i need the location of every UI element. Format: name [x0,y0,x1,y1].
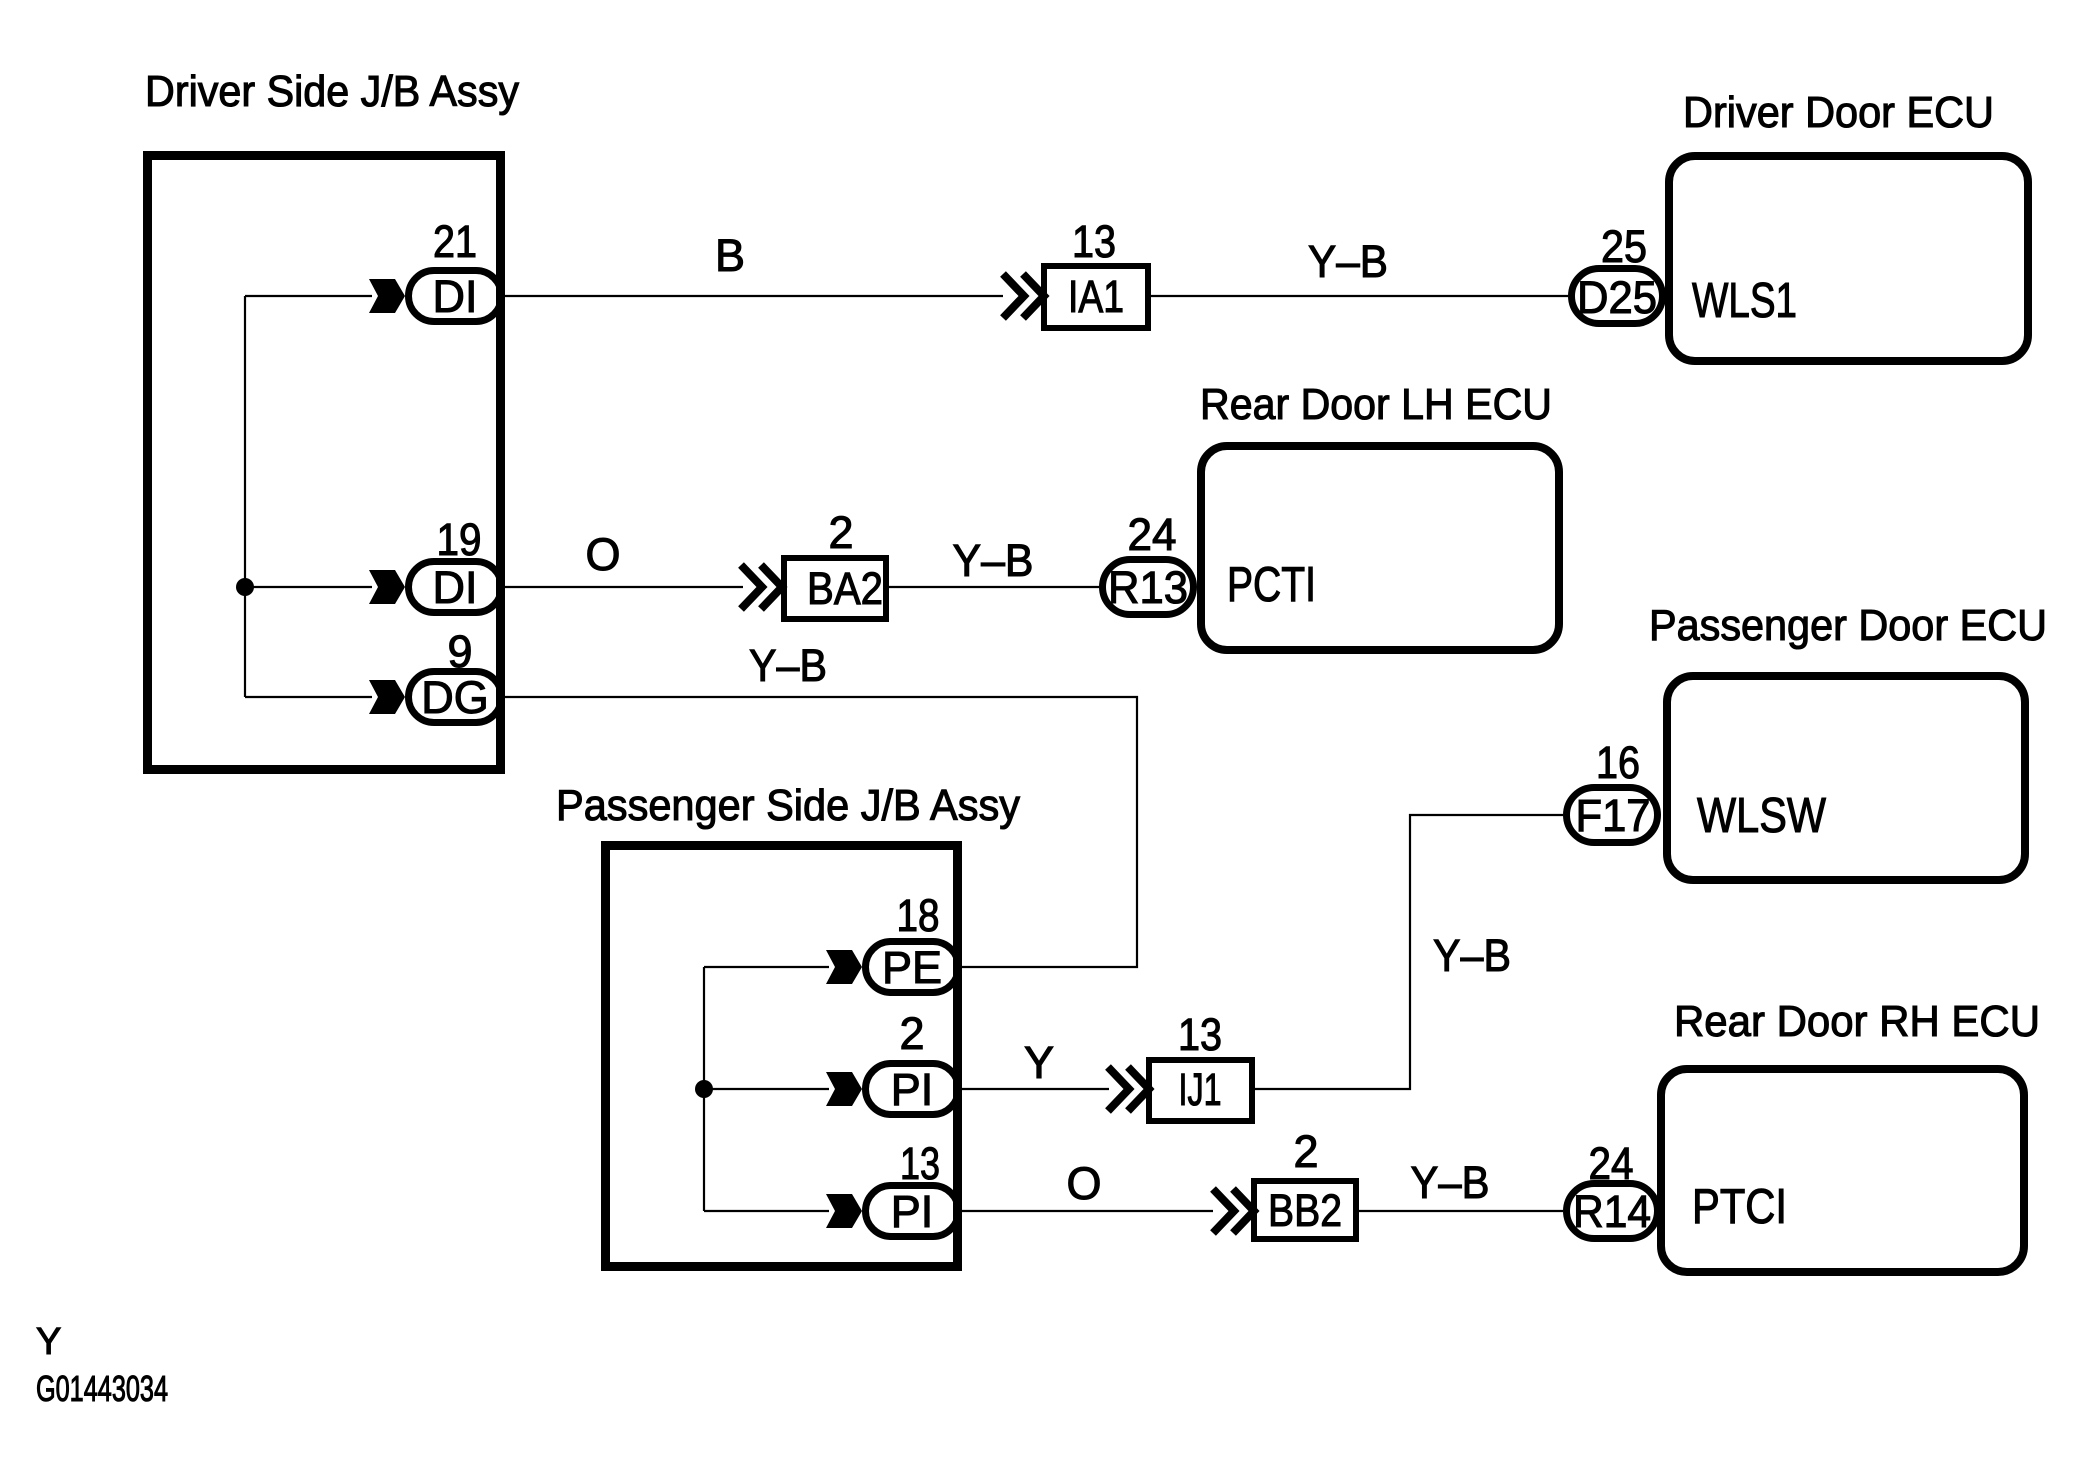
svg-text:G01443034: G01443034 [36,1368,168,1409]
svg-text:Y–B: Y–B [1411,1157,1490,1208]
svg-text:Y: Y [1024,1037,1054,1088]
svg-text:Y–B: Y–B [1308,236,1388,287]
svg-text:R13: R13 [1108,562,1188,613]
svg-text:Passenger Side J/B Assy: Passenger Side J/B Assy [556,781,1020,830]
svg-text:PI: PI [891,1064,934,1115]
svg-text:Y–B: Y–B [953,535,1034,586]
svg-text:Y–B: Y–B [749,640,827,691]
svg-text:O: O [585,529,620,580]
svg-text:PE: PE [882,942,942,993]
svg-text:Rear Door RH ECU: Rear Door RH ECU [1674,997,2040,1046]
svg-text:Driver Door ECU: Driver Door ECU [1683,88,1994,137]
svg-text:IA1: IA1 [1068,271,1124,322]
svg-text:DI: DI [433,562,478,613]
svg-text:13: 13 [1072,216,1116,267]
svg-text:2: 2 [828,507,853,558]
svg-text:IJ1: IJ1 [1179,1064,1222,1115]
svg-text:B: B [715,230,745,281]
svg-text:13: 13 [1178,1009,1222,1060]
svg-text:WLSW: WLSW [1697,789,1827,843]
svg-text:Passenger Door ECU: Passenger Door ECU [1649,601,2047,650]
svg-text:16: 16 [1596,737,1640,788]
svg-text:9: 9 [447,626,472,677]
svg-text:21: 21 [433,216,477,267]
svg-text:18: 18 [897,890,940,941]
svg-text:24: 24 [1128,509,1177,560]
svg-text:25: 25 [1601,221,1647,272]
svg-text:PCTI: PCTI [1227,558,1316,612]
svg-text:DG: DG [421,672,489,723]
svg-text:2: 2 [899,1008,924,1059]
svg-text:BA2: BA2 [807,563,883,614]
svg-text:Y–B: Y–B [1433,930,1511,981]
svg-text:Y: Y [36,1321,61,1363]
svg-text:BB2: BB2 [1268,1185,1342,1236]
svg-text:WLS1: WLS1 [1692,274,1797,328]
svg-text:19: 19 [437,514,482,565]
svg-text:2: 2 [1293,1126,1318,1177]
svg-text:13: 13 [900,1138,940,1189]
svg-text:D25: D25 [1577,272,1657,323]
svg-text:Rear Door LH ECU: Rear Door LH ECU [1200,380,1552,429]
svg-text:R14: R14 [1573,1186,1651,1237]
svg-text:O: O [1066,1158,1101,1209]
svg-text:PTCI: PTCI [1692,1180,1787,1234]
svg-text:Driver Side J/B Assy: Driver Side J/B Assy [145,67,519,116]
svg-text:24: 24 [1589,1138,1634,1189]
svg-text:F17: F17 [1576,790,1651,841]
svg-text:DI: DI [433,271,478,322]
svg-text:PI: PI [891,1186,934,1237]
